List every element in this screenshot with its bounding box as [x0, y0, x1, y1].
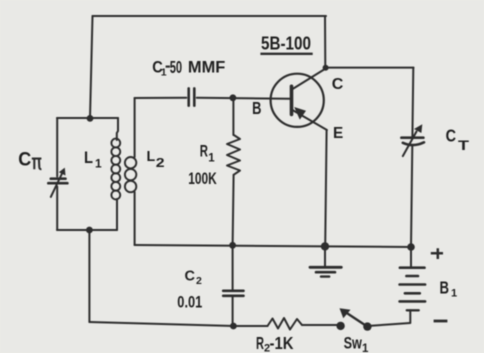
label L1	[84, 149, 102, 170]
capacitor CT arrow	[403, 132, 417, 157]
ground	[324, 246, 326, 266]
capacitor C-pi plates	[51, 177, 66, 180]
resistor R1 zigzag	[227, 135, 240, 175]
wire tank left upper	[56, 118, 58, 177]
svg-text:L: L	[84, 149, 93, 167]
label 5B-100	[260, 33, 312, 54]
svg-text:2: 2	[196, 275, 202, 287]
svg-text:100K: 100K	[188, 169, 217, 188]
capacitor C2 plates	[223, 289, 243, 292]
svg-text:0.01: 0.01	[177, 293, 202, 312]
inductor L2	[125, 157, 136, 192]
svg-text:1: 1	[208, 153, 215, 165]
battery B1 plates	[400, 300, 426, 303]
node C2 bottom junction	[230, 323, 237, 330]
transistor Q1 emitter lead	[292, 110, 327, 130]
transistor Q1 circle	[271, 74, 324, 127]
wire L1 bottom lead	[116, 199, 118, 230]
switch Sw1 left contact	[336, 322, 344, 330]
svg-text:B: B	[252, 98, 261, 118]
svg-text:C: C	[332, 76, 344, 93]
capacitor C1 plates	[187, 88, 190, 105]
svg-text:E: E	[333, 125, 343, 142]
capacitor C2 bottom lead	[232, 297, 234, 326]
wire battery top lead	[410, 247, 412, 268]
node R1 bottom junction	[229, 242, 236, 249]
battery B1 negative terminal	[409, 310, 411, 323]
svg-text:Sw: Sw	[344, 334, 363, 353]
capacitor C2 top lead	[232, 245, 234, 289]
label plus	[431, 248, 443, 259]
switch Sw1 lever	[348, 314, 368, 327]
label C1-50 MMF	[152, 57, 225, 79]
wire left vertical upper	[90, 16, 93, 118]
node collector junction	[323, 65, 329, 71]
wire middle rail	[135, 245, 411, 247]
wire tank right upper	[117, 118, 118, 140]
label R2-1K	[256, 333, 294, 353]
wire left vertical lower	[88, 230, 90, 322]
label C2	[185, 268, 203, 287]
svg-text:B: B	[440, 278, 450, 298]
wire base line left	[135, 97, 187, 99]
svg-text:T: T	[458, 137, 470, 153]
wire bottom rail left	[89, 322, 267, 326]
capacitor CT plates	[401, 136, 423, 139]
svg-text:2: 2	[156, 156, 165, 170]
label Sw1	[344, 334, 369, 353]
node tank-top junction	[87, 115, 94, 122]
svg-text:5B-100: 5B-100	[261, 33, 311, 54]
wire R2 to switch	[302, 324, 340, 326]
svg-text:MMF: MMF	[188, 57, 225, 76]
node C1-R1 junction	[230, 94, 237, 101]
inductor L1	[111, 139, 120, 200]
label R1	[200, 143, 216, 165]
label C-pi	[18, 149, 41, 171]
wire right vertical upper	[411, 68, 414, 137]
wire tank left lower	[56, 187, 58, 231]
svg-text:C: C	[18, 149, 31, 171]
node tank-bottom junction	[86, 227, 93, 234]
transistor Q1 collector lead	[292, 68, 326, 89]
svg-text:C: C	[185, 268, 196, 284]
node battery-rail junction	[407, 243, 415, 251]
capacitor C-pi arrow	[51, 173, 63, 197]
transistor Q1 base bar	[290, 86, 294, 114]
svg-text:L: L	[147, 148, 156, 165]
transistor Q1 emitter arrow	[294, 107, 306, 120]
inductor L2 top lead	[134, 98, 136, 157]
svg-text:1: 1	[161, 67, 167, 79]
resistor R1 bottom lead	[233, 175, 234, 246]
resistor R1 top lead	[232, 98, 234, 135]
node ground junction	[321, 242, 329, 250]
wire switch to battery	[367, 323, 410, 326]
resistor R2 zigzag	[268, 318, 303, 330]
label CT	[446, 126, 470, 154]
wire right vertical lower	[411, 146, 412, 247]
wire tank top	[57, 117, 118, 119]
wire emitter vertical	[325, 130, 326, 246]
wire base line right	[197, 98, 291, 99]
wire top right vertical	[324, 16, 326, 68]
wire tank bottom	[57, 229, 117, 231]
svg-text:-1K: -1K	[270, 333, 294, 353]
wire collector rail	[325, 67, 413, 69]
svg-text:R: R	[256, 333, 264, 353]
svg-text:C: C	[446, 126, 457, 146]
svg-text:1: 1	[451, 288, 457, 300]
svg-text:1: 1	[95, 156, 102, 170]
label minus	[434, 320, 448, 323]
label L2	[147, 148, 165, 170]
inductor L2 bottom lead	[134, 192, 136, 245]
svg-text:R: R	[200, 143, 208, 161]
svg-text:1: 1	[362, 343, 369, 353]
svg-text:50: 50	[170, 57, 183, 77]
wire top rail	[93, 15, 327, 17]
label B1	[440, 278, 458, 300]
switch Sw1 right contact	[363, 322, 371, 330]
